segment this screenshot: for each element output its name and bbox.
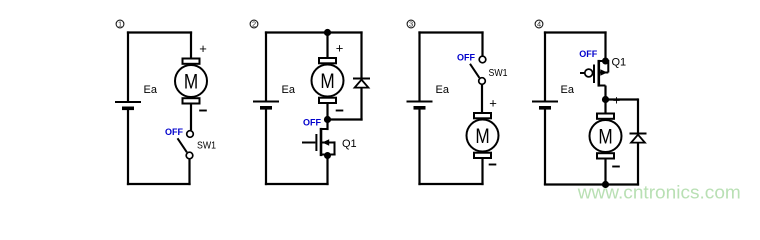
svg-text:M: M: [598, 125, 612, 149]
wire rail to source c4: [604, 31, 606, 61]
svg-text:SW1: SW1: [489, 67, 508, 79]
junction motor top c4: [602, 96, 609, 103]
svg-text:Ea: Ea: [436, 84, 450, 96]
svg-text:4: 4: [537, 20, 541, 29]
wire switch to motor c3: [481, 85, 483, 112]
transistor Q1 gate lead: [302, 142, 315, 144]
wire top rail c1: [127, 31, 192, 33]
battery B3 positive plate: [407, 101, 433, 103]
svg-text:Ea: Ea: [282, 84, 296, 96]
node label 1: [116, 20, 124, 29]
diode D1 bottom wire: [360, 88, 362, 121]
transistor Q1 c4 body-source connector: [606, 61, 609, 73]
transistor Q1 channel bar: [320, 128, 323, 156]
wire motor to bottom rail c4: [604, 160, 606, 185]
diode D1 cathode bar: [353, 78, 370, 80]
wire c2 motor drop: [326, 33, 328, 58]
battery B4 positive plate: [532, 101, 558, 103]
transistor Q1 c4 channel bar: [597, 60, 600, 87]
svg-text:M: M: [184, 70, 198, 94]
motor M c1 body: [175, 65, 207, 97]
wire motor to node c2: [326, 104, 328, 120]
motor M c4 top brush: [597, 114, 614, 119]
wire left c3 upper: [418, 31, 420, 100]
diode D2 cathode bar: [630, 133, 647, 135]
transistor Q1 c4 body arrow: [600, 69, 607, 75]
motor M c1 top brush: [183, 59, 200, 64]
motor M c4 body: [590, 120, 622, 152]
svg-text:+: +: [336, 41, 344, 56]
wire left c1 lower: [127, 110, 129, 185]
battery B1 positive plate: [115, 101, 141, 103]
svg-text:+: +: [489, 96, 497, 111]
wire motor to bottom rail c3: [481, 159, 483, 185]
wire top rail c2: [265, 31, 363, 33]
motor M c2 top brush: [319, 58, 336, 63]
wire bottom rail c3: [418, 183, 483, 185]
battery B3 negative plate: [414, 106, 426, 110]
switch SW1 lever: [178, 138, 187, 152]
transistor Q1 c4 source stub: [599, 60, 606, 62]
motor M c2 body: [312, 65, 344, 97]
wire top rail c4: [544, 31, 607, 33]
junction source c2: [324, 152, 331, 159]
svg-text:www.cntronics.com: www.cntronics.com: [577, 183, 741, 203]
svg-text:M: M: [475, 124, 489, 148]
svg-text:Ea: Ea: [144, 84, 158, 96]
svg-text:1: 1: [118, 20, 122, 29]
transistor Q1 c4 body stub: [599, 72, 609, 74]
wire node to drain c2: [326, 120, 328, 131]
transistor Q1 c4 gate bubble: [585, 69, 593, 77]
svg-text:SW1: SW1: [197, 140, 216, 152]
svg-text:M: M: [320, 69, 334, 93]
wire switch to bottom rail c1: [188, 159, 190, 185]
node label 3: [407, 20, 415, 29]
wire bottom rail c2: [265, 183, 329, 185]
transistor Q1 c4 drain stub: [599, 85, 606, 87]
transistor Q1 body-source connector: [334, 141, 336, 154]
wire left c4 lower: [544, 110, 546, 186]
wire left c2 upper: [265, 31, 267, 100]
svg-text:Q1: Q1: [342, 138, 357, 150]
wire motor to switch c1: [190, 105, 192, 131]
node label 2: [250, 20, 258, 29]
node label 4: [535, 20, 543, 29]
wire diode return c2: [328, 118, 363, 120]
switch SW1 c3 lever: [470, 64, 479, 78]
transistor Q1 c4 gate bar: [593, 65, 595, 84]
transistor Q1 gate bar: [315, 134, 317, 151]
battery B2 positive plate: [253, 101, 279, 103]
diode D1 triangle: [355, 80, 369, 88]
switch SW1 c3 top contact: [479, 56, 486, 63]
transistor Q1 body stub: [321, 142, 335, 144]
battery B2 negative plate: [260, 106, 272, 110]
wire left c4 upper: [544, 31, 546, 100]
transistor Q1 c4 gate lead: [580, 72, 585, 74]
diode D1 top wire: [360, 31, 362, 78]
wire right c3 to switch: [481, 31, 483, 55]
wire diode branch top c4: [606, 98, 639, 100]
junction top rail c2: [324, 29, 331, 36]
motor M c3 bottom brush: [474, 153, 491, 158]
battery B1 negative plate: [122, 107, 134, 111]
transistor Q1 body arrow: [322, 139, 329, 145]
motor M c3 body: [467, 120, 499, 152]
motor M c3 top brush: [474, 113, 491, 118]
svg-text:OFF: OFF: [457, 53, 475, 63]
motor M c2 bottom brush: [319, 98, 336, 103]
svg-text:+: +: [199, 41, 207, 56]
motor M c1 minus label: [199, 110, 207, 112]
motor M c4 minus label: [612, 166, 620, 168]
svg-text:OFF: OFF: [165, 127, 183, 137]
wire drain to node c4: [604, 86, 606, 100]
wire source to bottom rail c2: [326, 156, 328, 186]
junction motor bottom c2: [324, 116, 331, 123]
battery B4 negative plate: [539, 106, 551, 110]
wire left c2 lower: [265, 110, 267, 186]
motor M c4 bottom brush: [597, 153, 614, 158]
diode D2 top wire: [637, 98, 639, 133]
motor M c3 minus label: [489, 164, 497, 166]
svg-text:2: 2: [252, 20, 256, 29]
svg-text:OFF: OFF: [303, 117, 321, 127]
wire node to motor c4: [604, 100, 606, 113]
svg-text:OFF: OFF: [579, 49, 597, 59]
wire top rail c3: [418, 31, 483, 33]
junction source c4: [602, 58, 609, 65]
wire bottom rail c1: [127, 183, 191, 185]
svg-text:Q1: Q1: [612, 57, 627, 69]
diode D2 triangle: [631, 135, 645, 143]
transistor Q1 source stub: [321, 154, 336, 156]
diode D2 bottom wire: [637, 143, 639, 186]
switch SW1 c3 bottom contact: [479, 78, 486, 85]
switch SW1 top contact: [187, 131, 194, 138]
wire left c3 lower: [418, 110, 420, 186]
junction bottom rail c4: [602, 181, 609, 188]
wire right c1 top: [190, 31, 192, 58]
motor M c2 minus label: [336, 110, 344, 112]
wire bottom rail c4: [544, 183, 639, 185]
motor M c1 bottom brush: [183, 98, 200, 103]
switch SW1 bottom contact: [186, 152, 193, 159]
transistor Q1 drain stub: [321, 128, 328, 130]
wire left c1 upper: [127, 31, 129, 101]
svg-text:Ea: Ea: [561, 84, 575, 96]
svg-text:3: 3: [409, 20, 413, 29]
